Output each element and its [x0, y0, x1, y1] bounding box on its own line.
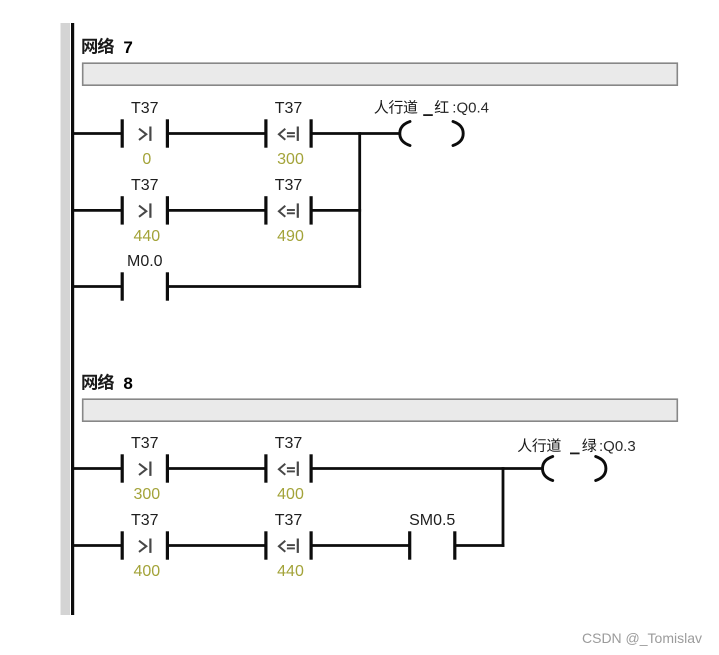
coil 人行道_红:Q0.4 [400, 122, 463, 146]
wire [73, 132, 122, 135]
contact T37 &lt;=I compare (net8 row2 col2) [264, 531, 312, 559]
wire [167, 467, 266, 470]
svg-text:T37: T37 [275, 435, 303, 452]
wire [311, 467, 543, 470]
wire [167, 132, 266, 135]
wire [167, 544, 266, 547]
left power rail [71, 23, 74, 615]
net7 branch junction vertical wire [358, 132, 361, 288]
svg-text:400: 400 [277, 486, 304, 503]
contact T37 &gt;I compare (net7 row2 col1) [121, 196, 169, 224]
wire [167, 209, 266, 212]
svg-text:7: 7 [123, 38, 132, 57]
svg-text:T37: T37 [131, 100, 159, 117]
svg-text:SM0.5: SM0.5 [409, 512, 455, 529]
svg-text:T37: T37 [275, 100, 303, 117]
svg-text:400: 400 [133, 563, 160, 580]
svg-text:T37: T37 [131, 512, 159, 529]
coil output 人行道_红:Q0.4 label [374, 100, 489, 117]
svg-text::Q0.4: :Q0.4 [452, 100, 489, 117]
svg-text:490: 490 [277, 228, 304, 245]
net8 branch junction vertical wire [502, 467, 505, 547]
svg-text::Q0.3: :Q0.3 [599, 438, 636, 455]
wire [73, 467, 122, 470]
contact T37 &lt;=I compare (net7 row2 col2) [264, 196, 312, 224]
svg-text:M0.0: M0.0 [127, 253, 163, 270]
contact T37 &gt;I compare (net7 row1 col1) [121, 119, 169, 147]
contact SM0.5 (net8 row2 col3) [408, 531, 456, 559]
wire [311, 132, 400, 135]
coil 人行道_绿:Q0.3 [543, 457, 606, 481]
svg-text:440: 440 [277, 563, 304, 580]
network 7 comment box [83, 63, 678, 85]
contact T37 &lt;=I compare (net8 row1 col2) [264, 454, 312, 482]
coil output 人行道_绿:Q0.3 label [518, 438, 636, 455]
svg-text:T37: T37 [275, 512, 303, 529]
svg-text:T37: T37 [275, 177, 303, 194]
svg-text:300: 300 [277, 151, 304, 168]
wire [73, 209, 122, 212]
wire [73, 544, 122, 547]
network 7 title 网络 7 [82, 38, 133, 58]
contact M0.0 (net7 row3) [121, 272, 169, 300]
contact T37 &gt;I compare (net8 row2 col1) [121, 531, 169, 559]
wire [167, 285, 361, 288]
svg-text:CSDN @_Tomislav: CSDN @_Tomislav [582, 630, 702, 646]
svg-text:300: 300 [133, 486, 160, 503]
left gutter bar [61, 23, 71, 615]
contact T37 &lt;=I compare (net7 row1 col2) [264, 119, 312, 147]
wire [455, 544, 505, 547]
svg-text:T37: T37 [131, 435, 159, 452]
svg-text:8: 8 [123, 374, 132, 393]
wire [311, 209, 361, 212]
network 8 title 网络 8 [82, 374, 133, 394]
svg-text:T37: T37 [131, 177, 159, 194]
svg-text:0: 0 [142, 151, 151, 168]
wire [73, 285, 122, 288]
network 8 comment box [83, 399, 678, 421]
contact T37 &gt;I compare (net8 row1 col1) [121, 454, 169, 482]
wire [311, 544, 410, 547]
svg-text:440: 440 [133, 228, 160, 245]
